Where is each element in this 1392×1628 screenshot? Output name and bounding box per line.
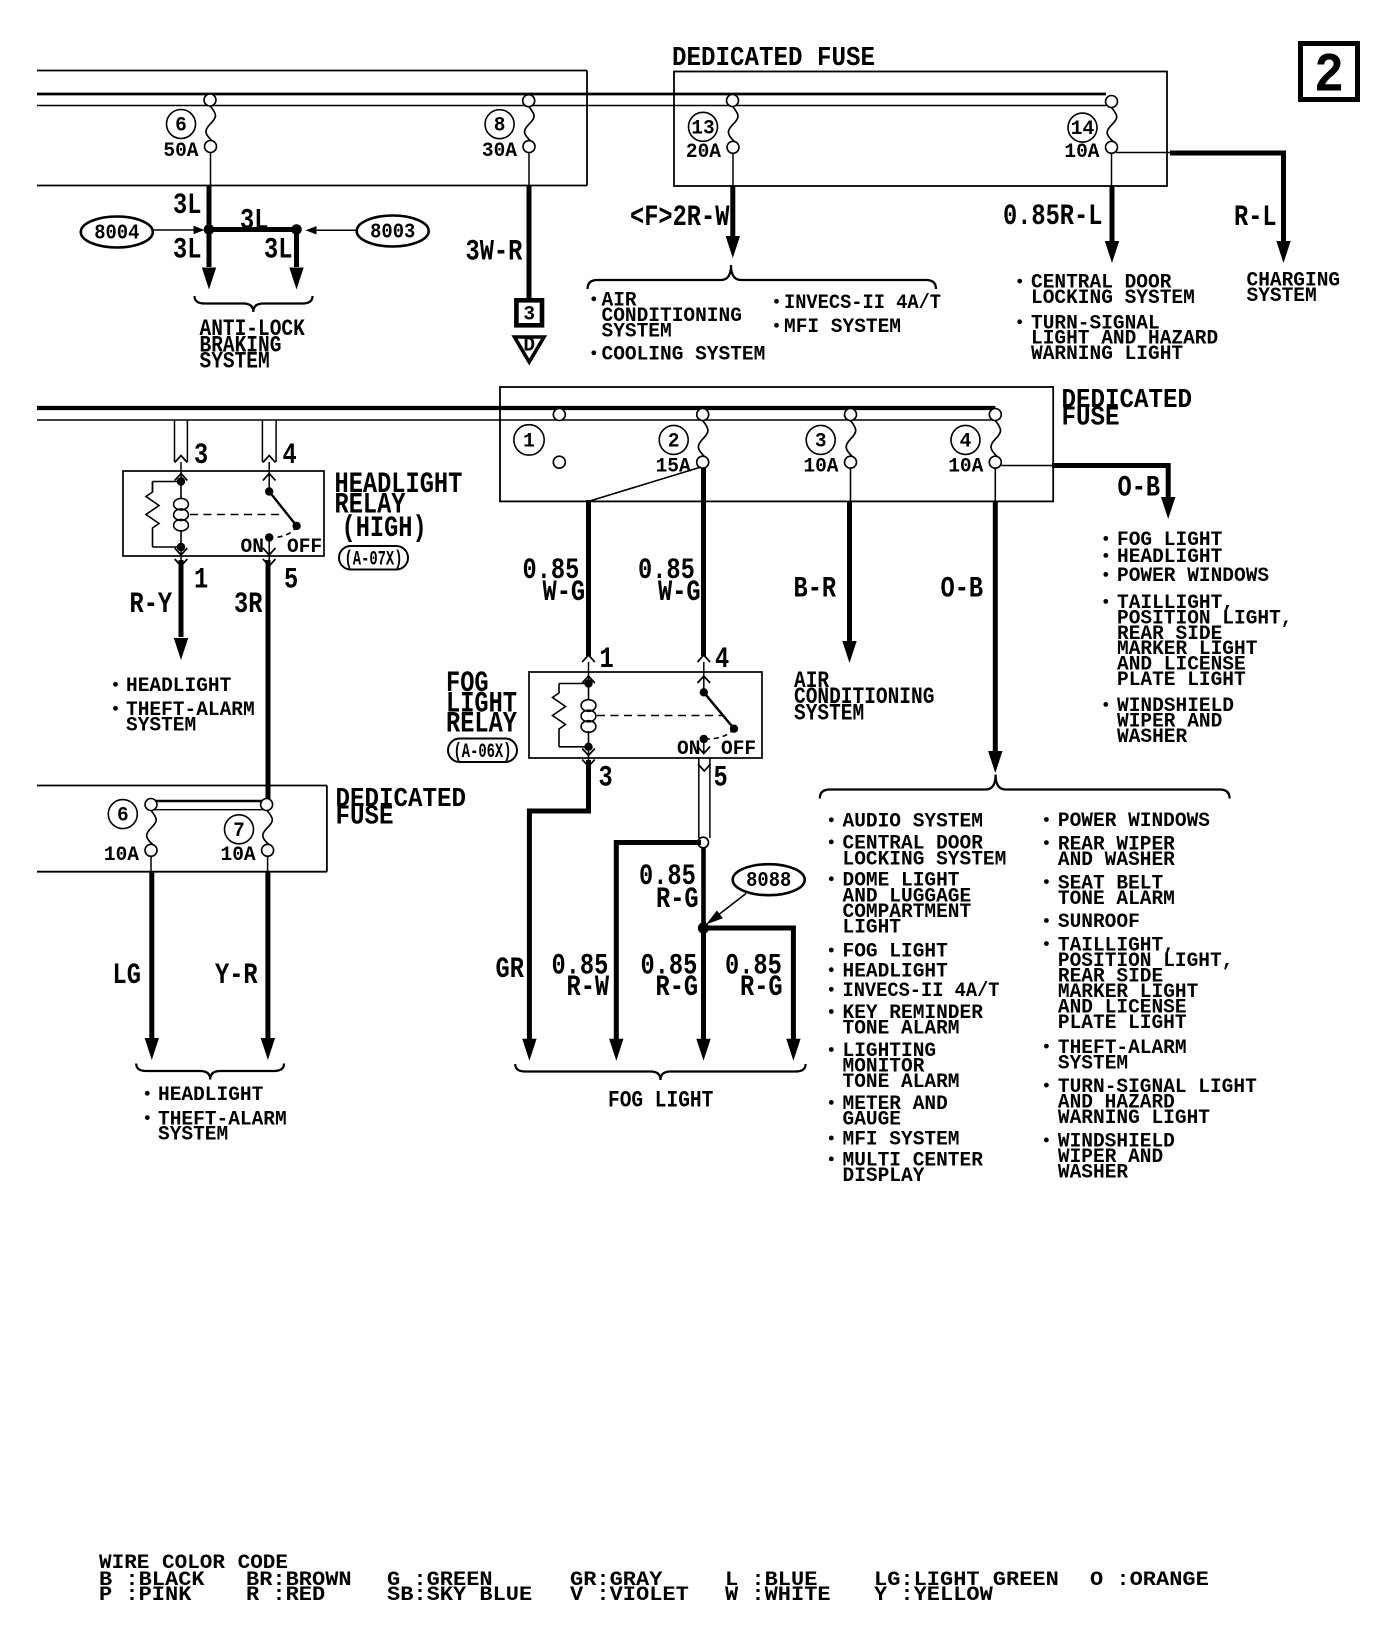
svg-text:LG: LG xyxy=(113,958,141,992)
svg-text:Y-R: Y-R xyxy=(215,958,258,992)
fuse 13 20A xyxy=(727,95,739,107)
svg-text:AUDIO SYSTEM: AUDIO SYSTEM xyxy=(843,811,983,834)
fuse 8 30A xyxy=(523,95,535,107)
fog relay pin3 exit xyxy=(588,747,590,762)
svg-text:4: 4 xyxy=(283,438,297,472)
svg-text:TONE ALARM: TONE ALARM xyxy=(843,1018,960,1041)
svg-text:WASHER: WASHER xyxy=(1117,726,1188,749)
svg-text:3: 3 xyxy=(815,430,827,453)
svg-text:V :VIOLET: V :VIOLET xyxy=(570,1584,689,1607)
svg-text:AND WASHER: AND WASHER xyxy=(1058,849,1176,872)
svg-text:14: 14 xyxy=(1071,118,1094,141)
svg-text:5: 5 xyxy=(714,761,728,795)
fuse 3 10A xyxy=(845,409,857,421)
svg-text:POWER WINDOWS: POWER WINDOWS xyxy=(1058,810,1210,833)
svg-text:HEADLIGHT: HEADLIGHT xyxy=(158,1084,263,1107)
list: central door locking / turn signal xyxy=(1017,279,1022,284)
svg-text:R-G: R-G xyxy=(740,970,783,1004)
svg-text:INVECS-II 4A/T: INVECS-II 4A/T xyxy=(843,980,1000,1003)
svg-text:3: 3 xyxy=(523,304,535,327)
fuse 6 50A xyxy=(204,94,216,106)
wire fuse2 diagonal to pin1 xyxy=(589,467,702,501)
wire node A down arrow xyxy=(207,230,212,268)
list: air conditioning / cooling system xyxy=(591,296,596,301)
svg-text:O-B: O-B xyxy=(1118,471,1161,505)
svg-text:WARNING LIGHT: WARNING LIGHT xyxy=(1031,343,1183,366)
dedicated fuse box (middle) xyxy=(500,387,1053,501)
svg-text:10A: 10A xyxy=(221,844,257,867)
svg-text:8088: 8088 xyxy=(746,870,791,893)
list: headlight / theft-alarm xyxy=(113,682,118,687)
svg-text:3: 3 xyxy=(194,438,208,472)
svg-text:10A: 10A xyxy=(948,456,984,479)
connector circle (pin5) xyxy=(698,837,709,848)
svg-text:5: 5 xyxy=(284,563,298,597)
svg-text:R-G: R-G xyxy=(656,882,699,916)
node A (3L junction left) xyxy=(204,224,215,235)
svg-text:10A: 10A xyxy=(104,844,140,867)
brace fog light xyxy=(515,1064,805,1080)
list: headlight / theft-alarm (lower) xyxy=(145,1091,150,1096)
svg-text:W-G: W-G xyxy=(658,575,701,609)
svg-text:SUNROOF: SUNROOF xyxy=(1058,911,1140,934)
relay coil junction top xyxy=(177,477,185,485)
svg-text:D: D xyxy=(523,335,535,358)
svg-text:SYSTEM: SYSTEM xyxy=(1058,1052,1128,1075)
svg-text:8: 8 xyxy=(494,115,506,138)
svg-text:SYSTEM: SYSTEM xyxy=(158,1124,228,1147)
fog relay switch pivot xyxy=(703,662,705,692)
relay switch ON contact xyxy=(273,526,297,538)
list col2: power windows etc xyxy=(1044,817,1049,822)
bus wire row2 (feed A) xyxy=(37,406,995,410)
svg-text:O :ORANGE: O :ORANGE xyxy=(1090,1569,1209,1592)
svg-text:(A-06X): (A-06X) xyxy=(454,741,512,764)
node (R-G junction) xyxy=(698,922,709,933)
dedicated fuse box (top middle) xyxy=(674,72,1167,187)
fuse 4 10A xyxy=(989,409,1001,421)
svg-text:O-B: O-B xyxy=(941,572,984,606)
list: INVECS / MFI xyxy=(774,299,779,304)
fog relay pin1 entry xyxy=(588,662,590,684)
svg-text:GR: GR xyxy=(496,952,525,986)
fuse 2 15A xyxy=(697,409,709,421)
svg-text:FOG LIGHT: FOG LIGHT xyxy=(608,1088,713,1114)
wire R-L (charging) xyxy=(1116,152,1172,154)
relay coil junction bottom xyxy=(177,543,185,551)
svg-text:WASHER: WASHER xyxy=(1058,1162,1129,1185)
fog light relay box xyxy=(529,672,762,758)
svg-text:6: 6 xyxy=(175,115,187,138)
svg-text:LOCKING SYSTEM: LOCKING SYSTEM xyxy=(1031,287,1195,310)
node B (3L junction right) xyxy=(291,224,302,235)
svg-text:ON: ON xyxy=(241,536,264,559)
svg-text:MFI SYSTEM: MFI SYSTEM xyxy=(784,316,901,339)
wire fuse13 down ((F)2R-W) xyxy=(732,153,734,187)
fog relay resistor xyxy=(559,683,589,685)
headlight relay box xyxy=(123,471,324,556)
fuse box (top left, junction block) xyxy=(37,70,587,72)
connector triangle D xyxy=(515,337,545,362)
svg-text:R-Y: R-Y xyxy=(130,587,173,621)
svg-text:DEDICATED FUSE: DEDICATED FUSE xyxy=(672,44,875,74)
svg-text:3L: 3L xyxy=(173,233,201,267)
svg-text:DISPLAY: DISPLAY xyxy=(843,1165,926,1188)
svg-text:OFF: OFF xyxy=(287,536,322,559)
wire drop to relay pin 4 (double line) xyxy=(261,420,263,462)
bus wire row1 (feed A) xyxy=(37,93,1106,96)
svg-text:COOLING SYSTEM: COOLING SYSTEM xyxy=(602,344,766,367)
svg-text:2: 2 xyxy=(668,430,680,453)
svg-text:W-G: W-G xyxy=(543,575,586,609)
svg-text:FUSE: FUSE xyxy=(1062,403,1120,433)
fog relay pin5 exit (double line) xyxy=(703,739,705,753)
relay pin1 exit xyxy=(180,547,182,560)
svg-text:3W-R: 3W-R xyxy=(466,235,523,269)
arrow 8003 to node B xyxy=(313,229,357,231)
svg-text:1: 1 xyxy=(600,642,614,676)
svg-text:4: 4 xyxy=(960,430,972,453)
relay coil L xyxy=(180,482,182,499)
connector box 3 xyxy=(516,300,542,325)
dedicated fuse box (lower left) xyxy=(37,785,327,787)
fog relay dashed link xyxy=(597,715,723,717)
svg-text:SYSTEM: SYSTEM xyxy=(200,349,270,375)
fog relay switch arm xyxy=(704,692,734,728)
wire drop to relay pin 3 (double line) xyxy=(174,420,176,462)
bus wire row1 (feed B) xyxy=(37,105,1106,107)
svg-text:HEADLIGHT: HEADLIGHT xyxy=(126,675,231,698)
svg-text:R :RED: R :RED xyxy=(246,1584,325,1607)
svg-text:PLATE LIGHT: PLATE LIGHT xyxy=(1058,1012,1187,1035)
svg-text:ON: ON xyxy=(677,738,700,761)
fog relay coil junction top xyxy=(584,679,592,687)
svg-text:3R: 3R xyxy=(234,587,263,621)
svg-text:SYSTEM: SYSTEM xyxy=(794,700,864,726)
relay switch pivot xyxy=(268,462,270,492)
svg-text:2: 2 xyxy=(1314,44,1344,108)
fuse 6 10A (lower) xyxy=(145,799,157,811)
wire fuse4 right branch (O-B) xyxy=(1001,465,1053,467)
svg-text:PLATE LIGHT: PLATE LIGHT xyxy=(1117,669,1246,692)
wire fuse2 straight to pin4 xyxy=(701,468,706,656)
wire LG down arrow xyxy=(150,856,152,872)
arrow 8088 to junction xyxy=(713,894,746,920)
connector ref (A-07X) xyxy=(339,546,408,570)
brace air conditioning list xyxy=(588,265,937,289)
svg-text:LOCKING SYSTEM: LOCKING SYSTEM xyxy=(843,849,1007,872)
svg-text:R-L: R-L xyxy=(1234,200,1277,234)
svg-text:(HIGH): (HIGH) xyxy=(342,511,427,545)
wire fuse8 down (3W-R) xyxy=(528,153,530,186)
wire junction right branch xyxy=(704,928,794,1039)
svg-text:30A: 30A xyxy=(482,140,518,163)
svg-text:MFI SYSTEM: MFI SYSTEM xyxy=(843,1129,960,1152)
relay pin5 exit xyxy=(268,538,270,561)
svg-text:10A: 10A xyxy=(803,456,839,479)
brace audio/power list xyxy=(820,775,1230,799)
brace anti-lock xyxy=(195,296,313,312)
svg-text:W :WHITE: W :WHITE xyxy=(725,1584,831,1607)
relay dashed link coil-switch xyxy=(190,514,279,516)
relay pin3 entry xyxy=(180,462,182,478)
relay switch arm (OFF) xyxy=(269,492,296,526)
fog relay coil junction bottom xyxy=(584,743,592,751)
svg-text:3: 3 xyxy=(599,761,613,795)
wire 0.85 R-G down from circle xyxy=(701,848,706,928)
svg-text:TONE ALARM: TONE ALARM xyxy=(843,1071,960,1094)
svg-text:SYSTEM: SYSTEM xyxy=(1247,285,1317,308)
svg-text:LIGHT: LIGHT xyxy=(843,916,902,939)
fuse 14 10A xyxy=(1106,96,1118,108)
connector 8003 xyxy=(357,216,429,247)
svg-text:SYSTEM: SYSTEM xyxy=(126,714,196,737)
svg-text:3L: 3L xyxy=(264,233,292,267)
svg-text:FUSE: FUSE xyxy=(336,802,394,832)
svg-text:<F>2R-W: <F>2R-W xyxy=(630,200,730,234)
wire Y-R down arrow xyxy=(267,856,269,872)
page number box 2 xyxy=(1301,44,1358,100)
fog relay ON contact xyxy=(708,729,734,739)
svg-text:13: 13 xyxy=(691,117,714,140)
svg-text:P :PINK: P :PINK xyxy=(99,1584,192,1607)
svg-text:7: 7 xyxy=(233,820,245,843)
svg-text:B-R: B-R xyxy=(794,572,837,606)
arrow 8004 to node A xyxy=(153,229,196,231)
svg-text:3L: 3L xyxy=(173,188,201,222)
wire fuse6 to node (3L) xyxy=(210,153,212,187)
connector ref (A-06X) xyxy=(448,739,517,763)
connector 8088 xyxy=(733,864,805,895)
list col1: audio system etc xyxy=(829,817,834,822)
wire node A to node B xyxy=(209,227,297,232)
svg-text:RELAY: RELAY xyxy=(446,707,517,741)
svg-text:1: 1 xyxy=(194,563,208,597)
svg-text:WARNING LIGHT: WARNING LIGHT xyxy=(1058,1107,1210,1130)
bus link fuse6-fuse7 xyxy=(151,800,267,803)
svg-text:8004: 8004 xyxy=(94,223,139,246)
svg-text:10A: 10A xyxy=(1064,141,1100,164)
svg-text:OFF: OFF xyxy=(721,738,756,761)
brace headlight (lower left) xyxy=(136,1064,284,1080)
wire node B down arrow xyxy=(294,230,299,268)
svg-text:R-W: R-W xyxy=(567,970,610,1004)
wire junction down xyxy=(701,928,706,1039)
svg-text:50A: 50A xyxy=(163,140,199,163)
wire branch left from circle xyxy=(616,843,701,1040)
svg-text:SB:SKY BLUE: SB:SKY BLUE xyxy=(387,1584,532,1607)
wire fuse14 down (0.85R-L) xyxy=(1111,153,1113,188)
svg-text:R-G: R-G xyxy=(656,970,699,1004)
fog relay coil xyxy=(588,684,590,701)
svg-text:INVECS-II 4A/T: INVECS-II 4A/T xyxy=(784,292,941,315)
svg-text:20A: 20A xyxy=(686,141,722,164)
svg-text:0.85R-L: 0.85R-L xyxy=(1003,199,1102,233)
relay resistor R xyxy=(153,481,182,483)
wire 3R down xyxy=(266,560,271,800)
svg-text:6: 6 xyxy=(117,805,129,828)
svg-text:TONE ALARM: TONE ALARM xyxy=(1058,888,1175,911)
wire GR down xyxy=(529,760,588,1039)
svg-text:8003: 8003 xyxy=(370,222,415,245)
svg-text:SYSTEM: SYSTEM xyxy=(602,321,672,344)
svg-text:POWER WINDOWS: POWER WINDOWS xyxy=(1117,565,1269,588)
list: O-B loads (right) xyxy=(1103,536,1108,541)
wire fuse4 down (O-B) xyxy=(994,468,996,501)
fuse 1 (no element) xyxy=(553,409,565,421)
wire fuse3 down (B-R) xyxy=(850,468,852,501)
svg-text:4: 4 xyxy=(715,642,729,676)
connector 8004 xyxy=(81,217,153,248)
fuse 7 10A (lower) xyxy=(261,799,273,811)
wire R-Y down arrow xyxy=(179,560,184,637)
svg-text:Y :YELLOW: Y :YELLOW xyxy=(874,1584,994,1607)
svg-text:(A-07X): (A-07X) xyxy=(345,549,403,572)
bus wire row2 (feed B) xyxy=(37,419,995,421)
svg-text:1: 1 xyxy=(523,430,535,453)
